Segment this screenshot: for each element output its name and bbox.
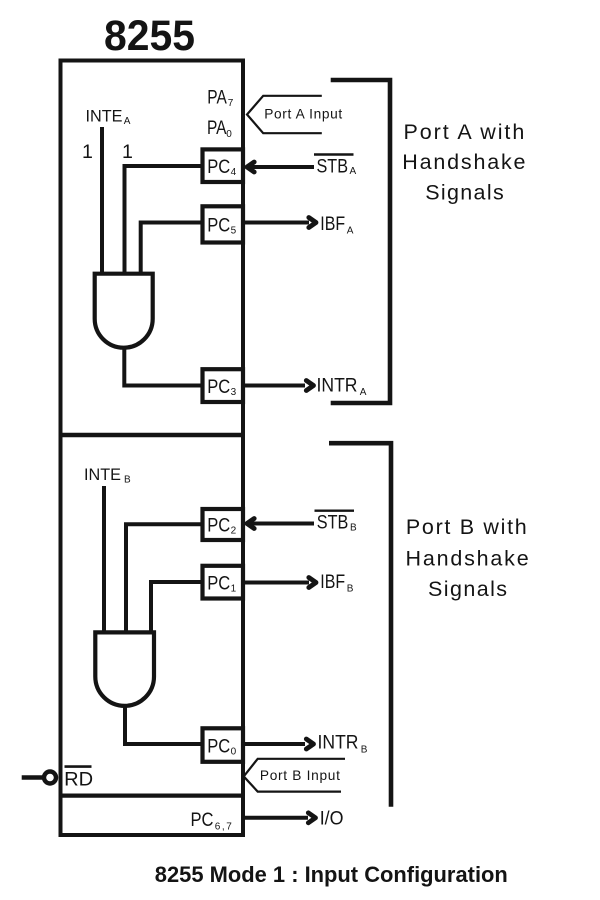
svg-text:I/O: I/O xyxy=(320,807,344,829)
svg-text:B: B xyxy=(124,475,131,486)
svg-text:A: A xyxy=(350,166,357,177)
wire AND gate B output to PC0 xyxy=(125,705,202,744)
bracket Port B xyxy=(329,443,391,807)
box PC4 xyxy=(203,149,244,182)
wire PC2 to AND gate B xyxy=(126,524,202,633)
svg-text:1: 1 xyxy=(231,584,237,595)
svg-text:PC: PC xyxy=(207,573,230,595)
divider above PC6,7 strip xyxy=(59,793,245,797)
bracket Port A xyxy=(331,80,390,403)
svg-text:6,7: 6,7 xyxy=(215,822,232,833)
svg-text:5: 5 xyxy=(231,226,237,237)
svg-text:B: B xyxy=(347,584,354,595)
svg-text:2: 2 xyxy=(231,526,237,537)
svg-text:PC: PC xyxy=(207,156,230,178)
IC body U1 (8255 outline) xyxy=(61,61,244,836)
svg-text:Port A Input: Port A Input xyxy=(264,107,342,122)
wire RD input stub xyxy=(22,775,43,779)
svg-text:STB: STB xyxy=(317,156,349,178)
banner Port A Input xyxy=(247,96,342,133)
box PC5 xyxy=(203,206,244,242)
wire PC1 to AND gate B xyxy=(151,582,202,633)
svg-text:0: 0 xyxy=(226,129,232,140)
svg-text:PC: PC xyxy=(207,515,230,537)
inverter bubble on RD input xyxy=(44,772,56,784)
svg-text:B: B xyxy=(361,744,368,755)
svg-text:4: 4 xyxy=(231,167,237,178)
svg-text:7: 7 xyxy=(228,98,234,109)
wire/arrow IBFB out of PC1 xyxy=(244,578,316,588)
label STBB with overline xyxy=(315,511,358,534)
label IBFB xyxy=(320,571,354,595)
svg-text:PC: PC xyxy=(207,215,230,237)
wire/arrow IBFA out of PC5 xyxy=(244,218,316,228)
label IBFA xyxy=(320,213,354,237)
svg-text:A: A xyxy=(360,387,367,398)
label PC6,7 xyxy=(191,809,233,833)
wire AND gate A output to PC3 xyxy=(124,347,202,386)
box PC3 xyxy=(203,369,244,402)
svg-text:8255 Mode 1 : Input Configurat: 8255 Mode 1 : Input Configuration xyxy=(155,862,508,887)
svg-text:A: A xyxy=(347,226,354,237)
box PC2 xyxy=(203,509,244,540)
svg-text:PA: PA xyxy=(207,86,227,108)
svg-text:1: 1 xyxy=(82,141,93,163)
svg-text:PA: PA xyxy=(207,117,227,139)
svg-text:PC: PC xyxy=(207,736,230,758)
svg-text:INTE: INTE xyxy=(86,107,123,126)
svg-text:0: 0 xyxy=(231,747,237,758)
AND gate A (INTEA gate) xyxy=(95,274,153,348)
label PA0 xyxy=(207,117,232,140)
label INTEB xyxy=(84,465,131,486)
label PA7 xyxy=(207,86,234,109)
svg-text:INTR: INTR xyxy=(318,732,359,754)
label RD with overline xyxy=(64,767,93,791)
label INTRB xyxy=(318,732,368,756)
svg-text:A: A xyxy=(124,116,131,127)
svg-text:8255: 8255 xyxy=(104,13,195,60)
svg-text:INTE: INTE xyxy=(84,465,121,484)
svg-text:STB: STB xyxy=(317,512,349,534)
svg-text:3: 3 xyxy=(231,387,237,398)
label Port B with Handshake Signals xyxy=(406,515,529,601)
banner Port B Input xyxy=(244,759,345,792)
svg-text:IBF: IBF xyxy=(320,213,345,235)
wire/arrow I/O from PC6,7 xyxy=(244,813,316,823)
svg-text:Port B with: Port B with xyxy=(406,515,527,539)
label INTEA xyxy=(86,107,131,127)
svg-text:Port B Input: Port B Input xyxy=(260,768,340,783)
svg-text:IBF: IBF xyxy=(320,571,345,593)
divider between Port A and Port B sections xyxy=(59,433,245,437)
box PC1 xyxy=(203,566,244,599)
wire INTEB to AND gate B xyxy=(102,486,106,633)
wire/arrow STBB into PC2 xyxy=(247,519,314,529)
label Port A with Handshake Signals xyxy=(402,120,525,204)
svg-text:PC: PC xyxy=(191,809,214,831)
svg-text:RD: RD xyxy=(64,769,93,791)
svg-text:Handshake: Handshake xyxy=(406,547,529,571)
box PC0 xyxy=(203,728,244,762)
svg-text:Port A with: Port A with xyxy=(404,120,525,144)
wire/arrow INTRB out of PC0 xyxy=(244,739,314,749)
label STBA with overline xyxy=(314,155,357,178)
wire/arrow STBA into PC4 xyxy=(247,162,314,172)
AND gate B (INTEB gate) xyxy=(95,632,154,705)
svg-text:1: 1 xyxy=(122,141,133,163)
svg-text:INTR: INTR xyxy=(317,374,358,396)
wire/arrow INTRA out of PC3 xyxy=(244,381,314,391)
wire PC4 to AND gate A xyxy=(125,166,203,274)
label INTRA xyxy=(317,374,367,398)
svg-text:Handshake: Handshake xyxy=(402,150,525,174)
wire INTEA to AND gate A xyxy=(100,127,104,274)
wire PC5 to AND gate A xyxy=(141,223,202,275)
svg-text:B: B xyxy=(350,523,357,534)
svg-text:PC: PC xyxy=(207,376,230,398)
